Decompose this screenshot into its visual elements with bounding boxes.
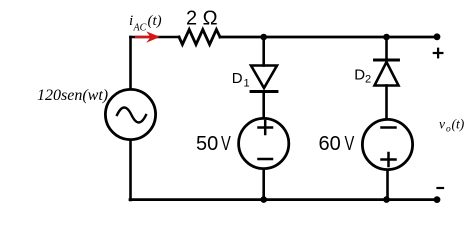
svg-text:2 Ω: 2 Ω [186, 8, 218, 30]
svg-text:v: v [439, 117, 445, 132]
svg-text:2: 2 [365, 74, 371, 86]
svg-text:(t): (t) [148, 13, 162, 29]
svg-text:60: 60 [319, 133, 341, 155]
svg-text:D: D [232, 70, 243, 87]
svg-text:D: D [354, 67, 365, 84]
svg-text:(t): (t) [452, 117, 465, 132]
svg-text:120sen(wt): 120sen(wt) [37, 87, 108, 104]
svg-text:o: o [446, 125, 451, 135]
svg-text:V: V [345, 133, 355, 155]
svg-text:50: 50 [196, 133, 218, 155]
svg-text:V: V [221, 133, 231, 155]
svg-text:AC: AC [133, 23, 147, 34]
svg-text:1: 1 [244, 78, 250, 90]
